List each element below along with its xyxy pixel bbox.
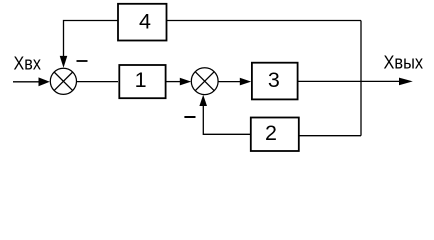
wire input to summer S1 [13, 81, 40, 83]
wire block 1 to summer S2 [166, 81, 181, 83]
wire trunk to block 2 [299, 135, 361, 137]
wire S1 to block 1 [77, 81, 119, 83]
svg-text:1: 1 [135, 68, 147, 92]
wire block 2 to S2 bottom [203, 106, 251, 135]
wire trunk to block 4 [167, 20, 362, 22]
block 1 [119, 65, 165, 98]
svg-text:4: 4 [139, 10, 151, 34]
wire output tap vertical trunk [360, 21, 362, 136]
block 3 [252, 63, 298, 100]
minus sign at S2 bottom input [184, 116, 195, 118]
block 2 [251, 118, 299, 152]
wire S2 to block 3 [218, 81, 241, 83]
wire block 3 to output [298, 80, 400, 82]
svg-text:2: 2 [265, 121, 277, 145]
svg-text:3: 3 [268, 68, 280, 92]
minus sign at S1 top input [77, 60, 88, 62]
summing junction S2 [191, 68, 218, 95]
wire block 4 to S1 top [64, 21, 119, 57]
svg-text:Хвх: Хвх [14, 53, 41, 73]
block 4 [118, 4, 167, 41]
svg-text:Хвых: Хвых [384, 53, 424, 73]
summing junction S1 [50, 68, 76, 94]
